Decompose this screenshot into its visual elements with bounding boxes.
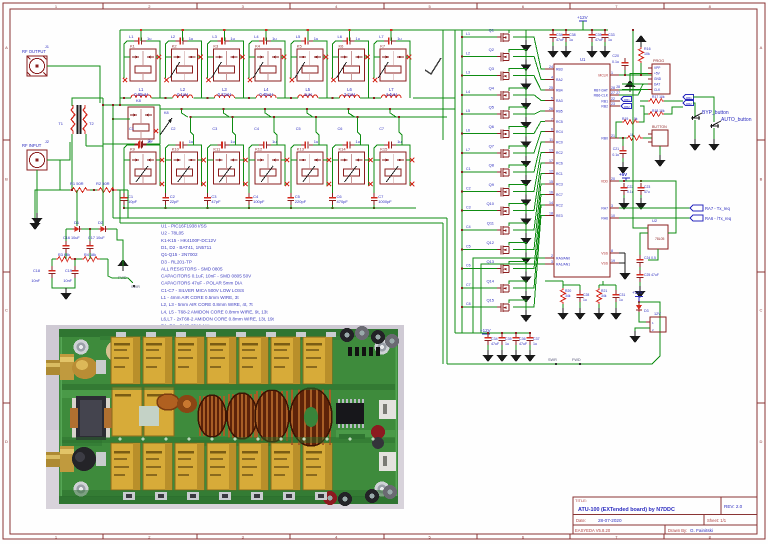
ground 12V connector: [635, 328, 650, 331]
svg-text:6: 6: [551, 128, 553, 132]
svg-text:L2: L2: [466, 51, 470, 55]
svg-text:1u: 1u: [272, 36, 276, 41]
svg-text:AUTO_button: AUTO_button: [721, 117, 752, 123]
resistor R16 10k: [639, 47, 644, 63]
svg-text:FWD: FWD: [572, 358, 581, 362]
no-connect marks K3: [240, 55, 244, 59]
ground C34: [487, 345, 489, 350]
inductor L1: [131, 95, 151, 98]
transistor Q8: [497, 168, 509, 177]
svg-text:RB1: RB1: [624, 98, 630, 102]
svg-text:RB2: RB2: [686, 102, 692, 106]
capacitor bypass 1u of K3: [217, 38, 229, 45]
svg-text:1uH: 1uH: [304, 92, 312, 97]
wire gate Q7: [462, 152, 497, 154]
IC U1 PIC16F1938: [554, 64, 610, 277]
relay K9: [130, 152, 156, 184]
net flag RB1 right: [683, 95, 693, 100]
wire drain Q11 to U1 pin: [509, 223, 526, 233]
svg-text:10pF: 10pF: [128, 199, 138, 204]
U1 right pin 23 RB2: [610, 105, 619, 107]
svg-text:100pF: 100pF: [253, 199, 265, 204]
svg-text:13: 13: [549, 149, 553, 153]
capacitor C6: [329, 193, 336, 205]
ground AUTO: [713, 128, 715, 139]
svg-text:K2: K2: [172, 44, 178, 49]
wire gate Q5: [462, 113, 497, 115]
svg-text:10nF: 10nF: [31, 279, 40, 283]
wire inductor chain segment 7: [360, 97, 381, 99]
svg-text:K11: K11: [213, 147, 221, 152]
svg-text:G. Fainitski: G. Fainitski: [690, 528, 713, 533]
wire C3 to bus: [206, 205, 208, 208]
svg-text:DAT: DAT: [654, 82, 660, 86]
svg-text:R2 50R: R2 50R: [96, 181, 110, 186]
svg-text:3: 3: [611, 204, 613, 208]
no-connect marks K9: [160, 158, 164, 162]
relay K6: [339, 49, 365, 81]
svg-text:1u: 1u: [569, 38, 573, 42]
wire VDD: [619, 180, 645, 182]
wires of relay cell K6: [333, 41, 343, 57]
svg-text:R19: R19: [622, 117, 628, 121]
svg-text:Q4: Q4: [489, 85, 495, 90]
svg-text:C2: C2: [466, 186, 471, 190]
svg-text:27: 27: [611, 91, 615, 95]
capacitor C3: [204, 193, 211, 205]
svg-text:Q15: Q15: [486, 298, 494, 303]
wire bottom loop: [447, 302, 660, 364]
svg-text:Q6: Q6: [489, 124, 495, 129]
capacitor C38 1u: [563, 30, 570, 42]
wires of relay cell K5: [291, 41, 301, 57]
wires of relay cell K11 jog: [223, 109, 229, 117]
wire inductor chain segment 5: [277, 97, 298, 99]
ground VSS: [620, 268, 631, 280]
svg-text:RA2: RA2: [556, 78, 563, 82]
no-connect marks K2: [199, 55, 203, 59]
inductor L6: [340, 95, 360, 98]
wires of relay cell K10 jog: [182, 109, 188, 117]
wires R19: [639, 114, 644, 122]
svg-text:C3: C3: [466, 206, 471, 210]
svg-text:D: D: [760, 439, 763, 444]
svg-text:C39: C39: [595, 33, 602, 37]
svg-text:K6: K6: [339, 44, 345, 49]
svg-text:C6: C6: [466, 264, 471, 268]
capacitor bypass 1u of K15: [384, 142, 396, 149]
svg-text:17: 17: [549, 159, 553, 163]
wire C1 to bus: [123, 205, 125, 208]
wires R17 R18: [640, 100, 648, 102]
svg-text:3: 3: [551, 260, 553, 264]
wire drain Q4 to U1 pin: [509, 88, 526, 98]
svg-text:D3: D3: [644, 309, 649, 313]
U1 right pin 3 RA7: [610, 207, 619, 209]
svg-text:1u: 1u: [619, 298, 623, 302]
ground of Q14: [521, 291, 532, 303]
capacitor C39 47uF: [589, 30, 596, 42]
svg-text:K5: K5: [297, 44, 303, 49]
svg-text:1u: 1u: [583, 298, 587, 302]
svg-text:RA7 - Tx_req: RA7 - Tx_req: [705, 206, 730, 211]
svg-text:C16 10uF: C16 10uF: [63, 236, 80, 240]
svg-text:Q9: Q9: [489, 182, 495, 187]
transistor Q4: [497, 91, 509, 100]
capacitor bypass 1u of K7: [384, 38, 396, 45]
svg-text:47pF: 47pF: [211, 199, 221, 204]
svg-text:U1 - PIC16F1938 I/SS: U1 - PIC16F1938 I/SS: [161, 224, 207, 229]
svg-text:C36: C36: [519, 337, 526, 341]
svg-text:CAPACITORS 0.1uF, 10nF - SMD 0: CAPACITORS 0.1uF, 10nF - SMD 0805 50V: [161, 274, 252, 279]
svg-text:K12: K12: [255, 147, 263, 152]
transistor Q7: [497, 149, 509, 158]
checkmark annotation: [425, 58, 441, 74]
wire K8 coil feed: [113, 118, 130, 120]
wire gate Q12: [462, 248, 497, 250]
svg-text:D1: D1: [74, 220, 80, 225]
U1 right pin 27 RB6-CLK: [610, 94, 619, 96]
net flag RA7: [690, 205, 703, 211]
no-connect mark K8: [154, 129, 158, 133]
no-connect marks K1: [157, 55, 161, 59]
U1 left pin 25: [545, 89, 554, 91]
no-connect marks K14: [368, 158, 372, 162]
net flag RB1: [621, 97, 631, 102]
wires K8 cap rail: [103, 143, 135, 145]
svg-text:C34: C34: [556, 33, 563, 37]
wire drain Q3 to U1 pin: [509, 69, 526, 79]
svg-text:C35: C35: [505, 337, 512, 341]
svg-text:34k: 34k: [601, 294, 607, 298]
svg-text:1u: 1u: [533, 342, 537, 346]
U1 right pin 8 VSS: [610, 252, 619, 254]
svg-text:8: 8: [611, 249, 613, 253]
svg-text:Q1: Q1: [489, 28, 495, 33]
svg-text:BUTTON: BUTTON: [652, 125, 667, 129]
capacitor bypass 1u of K14: [343, 142, 355, 149]
transistor Q9: [497, 187, 509, 196]
svg-text:25: 25: [549, 86, 553, 90]
wire C5 to bus: [290, 205, 292, 208]
relay K3: [213, 49, 239, 81]
wires RB1 RB2 from U1: [619, 100, 620, 102]
wire gate Q4: [462, 94, 497, 96]
svg-text:K10: K10: [172, 147, 180, 152]
grounds R20 C28: [562, 304, 564, 308]
push button BUTTON: [652, 130, 668, 146]
svg-text:1u: 1u: [356, 36, 360, 41]
svg-text:L4: L4: [254, 34, 259, 39]
svg-text:0.1uH: 0.1uH: [177, 92, 188, 97]
wire RA6 Tx_req: [619, 217, 690, 219]
svg-text:7: 7: [551, 117, 553, 121]
wire cap bank to detector: [446, 218, 448, 364]
capacitor C37 1u: [527, 333, 534, 345]
svg-text:27: 27: [616, 91, 620, 95]
ground of Q4: [521, 98, 532, 110]
ground of C33: [600, 46, 611, 58]
ground of Q13: [521, 272, 532, 284]
svg-text:0.22uH: 0.22uH: [218, 92, 232, 97]
svg-text:C8: C8: [466, 302, 471, 306]
svg-text:1u: 1u: [397, 36, 401, 41]
svg-text:C1-C7 - SILVER MICA 500V LOW L: C1-C7 - SILVER MICA 500V LOW LOSS: [161, 288, 244, 293]
capacitor bypass 1u of K11: [217, 142, 229, 149]
U1 left pin 26: [545, 110, 554, 112]
wires of relay cell K9: [124, 145, 134, 160]
svg-text:D1, D2 - BAT41, 1N5711: D1, D2 - BAT41, 1N5711: [161, 245, 212, 250]
svg-text:BYP_button: BYP_button: [702, 110, 729, 116]
wire J1 to T1: [47, 66, 100, 103]
capacitor C2: [162, 193, 169, 205]
svg-text:C5: C5: [466, 244, 471, 248]
svg-text:VDD: VDD: [601, 180, 609, 184]
wire J2 to T1: [47, 142, 70, 160]
svg-text:+12V: +12V: [577, 15, 588, 20]
svg-text:4: 4: [551, 75, 553, 79]
svg-text:0.1u: 0.1u: [612, 153, 619, 157]
inductor L7: [381, 95, 401, 98]
wire +12V top bus: [120, 29, 608, 31]
svg-text:C21: C21: [613, 147, 619, 151]
wire gate bus vertical: [461, 30, 463, 333]
svg-text:Date:: Date:: [576, 518, 586, 523]
wires of relay cell K14: [333, 145, 343, 160]
transistor Q12: [497, 245, 509, 254]
U1 right pin 22 RB1: [610, 100, 619, 102]
U1 right pin 20 VDD: [610, 180, 619, 182]
capacitor C28 1u: [577, 290, 584, 302]
relay K13: [297, 152, 323, 184]
svg-text:47uF: 47uF: [519, 342, 528, 346]
svg-text:GND: GND: [654, 77, 662, 81]
no-connect marks K4: [282, 55, 286, 59]
ground of Q10: [521, 214, 532, 226]
svg-text:Q14: Q14: [486, 278, 494, 283]
capacitor C33 1u: [602, 30, 609, 42]
svg-text:RC4: RC4: [556, 130, 563, 134]
wires R20 C28: [562, 285, 564, 288]
wire drain Q5 to U1 pin: [509, 107, 526, 117]
svg-text:TITLE:: TITLE:: [575, 498, 587, 503]
svg-text:K1: K1: [130, 44, 136, 49]
wire J2 down to ground: [36, 170, 38, 213]
relay K5: [297, 49, 323, 81]
wires of relay cell K14 jog: [349, 109, 355, 117]
wire gate Q14: [462, 287, 497, 289]
wire gate Q1: [462, 36, 497, 38]
svg-text:22: 22: [611, 97, 615, 101]
U1 left pin 15: [545, 183, 554, 185]
wire RB1 to AUTO switch: [693, 97, 714, 122]
svg-text:K4: K4: [255, 44, 261, 49]
svg-text:47uF: 47uF: [595, 38, 604, 42]
transistor Q14: [497, 284, 509, 293]
svg-text:RA3: RA3: [556, 99, 563, 103]
svg-text:RC3: RC3: [556, 182, 563, 186]
ground C35: [501, 345, 503, 350]
svg-text:R16: R16: [644, 47, 651, 51]
wire drain Q15 to U1 pin: [509, 300, 526, 310]
svg-text:RF INPUT: RF INPUT: [22, 143, 42, 148]
wire bus A: [103, 104, 160, 106]
svg-text:C19: C19: [65, 269, 72, 273]
svg-text:Q7: Q7: [489, 143, 495, 148]
svg-text:PROG: PROG: [653, 59, 664, 63]
capacitor bypass 1u of K5: [301, 38, 313, 45]
svg-text:SWR: SWR: [548, 358, 557, 362]
wire inductor chain segment 1: [120, 97, 131, 99]
svg-text:B: B: [760, 176, 763, 181]
svg-text:L7: L7: [379, 34, 384, 39]
wire drain Q1 to U1 pin: [509, 30, 526, 40]
capacitor C22 0.1u: [621, 183, 628, 195]
wires of relay cell K4: [249, 41, 259, 57]
ground of Q5: [521, 117, 532, 129]
wires T1 windings: [72, 98, 86, 106]
svg-text:C17 10uF: C17 10uF: [88, 236, 105, 240]
svg-text:RB1: RB1: [601, 100, 608, 104]
svg-text:RC2: RC2: [556, 203, 563, 207]
svg-text:12: 12: [549, 170, 553, 174]
svg-text:R1 50R: R1 50R: [70, 181, 84, 186]
wire drain Q7 to U1 pin: [509, 146, 526, 156]
U1 right pin 28 RB7-DAT: [610, 89, 619, 91]
svg-text:16: 16: [549, 190, 553, 194]
wire gate Q10: [462, 210, 497, 212]
wire gate Q3: [462, 75, 497, 77]
svg-text:220pF: 220pF: [295, 199, 307, 204]
capacitor C31 1u: [613, 290, 620, 302]
svg-text:Q5: Q5: [489, 105, 495, 110]
wire drain Q10 to U1 pin: [509, 204, 526, 214]
svg-text:A: A: [5, 45, 8, 50]
svg-text:L2: L2: [171, 34, 176, 39]
relay K11: [213, 152, 239, 184]
capacitor bypass 1u of K13: [301, 142, 313, 149]
wire gate Q15: [462, 306, 497, 308]
ground BYP: [694, 120, 696, 139]
wire drain Q13 to U1 pin: [509, 262, 526, 272]
wire gate Q9: [462, 190, 497, 192]
ground of C34: [548, 46, 559, 58]
wire drain Q9 to U1 pin: [509, 184, 526, 194]
wire drain Q12 to U1 pin: [509, 242, 526, 252]
svg-text:L1: L1: [129, 34, 134, 39]
transistor Q3: [497, 72, 509, 81]
capacitor C34 47uF: [485, 333, 492, 345]
ground of Q12: [521, 252, 532, 264]
svg-text:23: 23: [611, 102, 615, 106]
ground of C38: [561, 46, 572, 58]
svg-text:RC5: RC5: [556, 120, 563, 124]
svg-text:1u: 1u: [147, 36, 151, 41]
svg-text:C4: C4: [254, 127, 259, 131]
svg-text:C34: C34: [491, 337, 498, 341]
svg-text:R20: R20: [565, 289, 571, 293]
svg-text:D3 - RL201-TP: D3 - RL201-TP: [161, 259, 192, 264]
+5V arrow at R16: [636, 35, 647, 47]
svg-text:C1: C1: [129, 127, 134, 131]
wires R21 C31: [598, 285, 600, 288]
svg-text:L6: L6: [338, 34, 343, 39]
svg-text:L6,L7 - 2xT68-2 AMIDON CORE 0.: L6,L7 - 2xT68-2 AMIDON CORE 0.8mm WIRE, …: [161, 316, 275, 321]
svg-text:0.05uH: 0.05uH: [134, 92, 148, 97]
svg-text:34k: 34k: [565, 294, 571, 298]
U1 right pin 21 RB0: [610, 137, 619, 139]
svg-text:C2: C2: [171, 127, 176, 131]
svg-text:CLK: CLK: [654, 88, 661, 92]
svg-text:28: 28: [611, 86, 615, 90]
capacitor C20 0.1u: [622, 58, 629, 70]
switch AUTO_button: [710, 125, 719, 127]
svg-text:22pF: 22pF: [170, 199, 180, 204]
svg-text:2.2uH: 2.2uH: [344, 92, 355, 97]
inductor L4: [256, 95, 276, 98]
wire C7 to bus: [373, 205, 375, 208]
ground at J2: [32, 213, 43, 225]
connector J2 RF INPUT: [27, 150, 47, 170]
svg-text:C38: C38: [569, 33, 576, 37]
transistor Q5: [497, 110, 509, 119]
wires of relay cell K1: [124, 41, 134, 57]
svg-text:1u: 1u: [505, 342, 509, 346]
wires VSS to ground: [619, 252, 625, 254]
svg-text:RC2: RC2: [556, 151, 563, 155]
svg-text:1u: 1u: [356, 139, 360, 144]
transistor Q6: [497, 130, 509, 139]
svg-text:RB3: RB3: [556, 68, 563, 72]
svg-text:RE3: RE3: [556, 214, 563, 218]
svg-text:VSS: VSS: [601, 252, 609, 256]
svg-text:RB2: RB2: [601, 105, 608, 109]
ground C36: [515, 345, 517, 350]
capacitor C5: [287, 193, 294, 205]
svg-text:RF OUTPUT: RF OUTPUT: [22, 49, 46, 54]
svg-text:470pF: 470pF: [337, 199, 349, 204]
capacitor C35 1u: [499, 333, 506, 345]
wire MCLR to prog: [619, 74, 652, 76]
capacitor C18 10nF: [49, 266, 56, 278]
wire 12V to U2: [632, 30, 634, 218]
svg-text:1u: 1u: [147, 139, 151, 144]
resistor R15 1k: [626, 136, 643, 141]
U1 left pin 6: [545, 131, 554, 133]
wire gate Q8: [462, 171, 497, 173]
svg-text:Drawn By:: Drawn By:: [668, 528, 687, 533]
wire drain Q14 to U1 pin: [509, 281, 526, 291]
U1 bottom-left pin 3 RA1/AN1: [545, 263, 554, 265]
svg-text:RC6: RC6: [556, 162, 563, 166]
svg-text:U2 - 78L05: U2 - 78L05: [161, 231, 184, 236]
svg-text:11: 11: [549, 138, 553, 142]
svg-text:K8: K8: [136, 98, 142, 103]
wires of relay cell K10: [166, 145, 176, 160]
svg-text:R18 10k: R18 10k: [652, 109, 665, 113]
svg-text:21: 21: [611, 134, 615, 138]
svg-text:Q1-Q15 - 2N7002: Q1-Q15 - 2N7002: [161, 252, 198, 257]
ground of Q3: [521, 79, 532, 91]
wires of relay cell K15 jog: [390, 109, 396, 117]
svg-text:1u: 1u: [189, 139, 193, 144]
svg-text:+12V: +12V: [480, 328, 491, 333]
wire relay drive bus: [454, 30, 456, 333]
inductor L2: [173, 95, 193, 98]
svg-text:C33: C33: [608, 33, 615, 37]
relay K10: [172, 152, 198, 184]
transistor Q15: [497, 303, 509, 312]
